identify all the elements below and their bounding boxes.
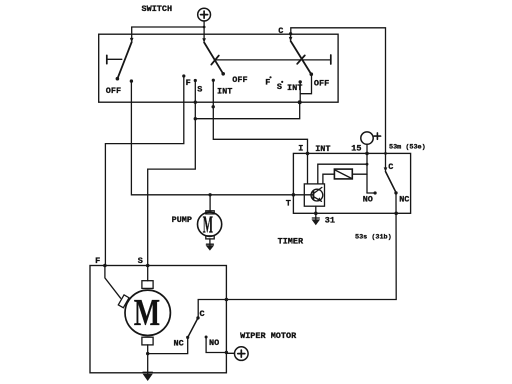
svg-text:C: C	[200, 309, 205, 319]
svg-text:15: 15	[351, 144, 361, 154]
svg-text:NO: NO	[363, 194, 373, 204]
svg-text:S: S	[277, 82, 282, 92]
svg-text:WIPER MOTOR: WIPER MOTOR	[240, 331, 297, 341]
svg-text:NC: NC	[174, 339, 184, 349]
svg-text:OFF: OFF	[314, 78, 329, 88]
svg-text:M: M	[134, 292, 160, 334]
svg-text:S: S	[138, 256, 143, 266]
svg-text:PUMP: PUMP	[172, 215, 192, 225]
svg-text:NO: NO	[209, 338, 219, 348]
svg-text:C: C	[388, 162, 393, 172]
svg-text:S: S	[197, 85, 202, 95]
svg-text:F: F	[186, 78, 191, 88]
svg-text:SWITCH: SWITCH	[142, 4, 173, 14]
svg-text:INT: INT	[287, 83, 302, 93]
svg-text:INT: INT	[315, 144, 330, 154]
svg-text:F: F	[265, 78, 270, 88]
svg-text:TIMER: TIMER	[278, 237, 304, 247]
svg-text:OFF: OFF	[106, 86, 121, 96]
svg-text:53m (53e): 53m (53e)	[389, 143, 426, 151]
svg-text:T: T	[286, 199, 291, 209]
svg-text:F: F	[95, 256, 100, 266]
svg-text:INT: INT	[217, 87, 232, 97]
svg-text:53s (31b): 53s (31b)	[355, 233, 392, 241]
svg-text:31: 31	[325, 216, 335, 226]
svg-text:NC: NC	[399, 194, 409, 204]
svg-text:M: M	[203, 212, 213, 239]
svg-text:I: I	[298, 143, 303, 153]
svg-text:C: C	[278, 26, 283, 36]
svg-text:OFF: OFF	[232, 75, 247, 85]
